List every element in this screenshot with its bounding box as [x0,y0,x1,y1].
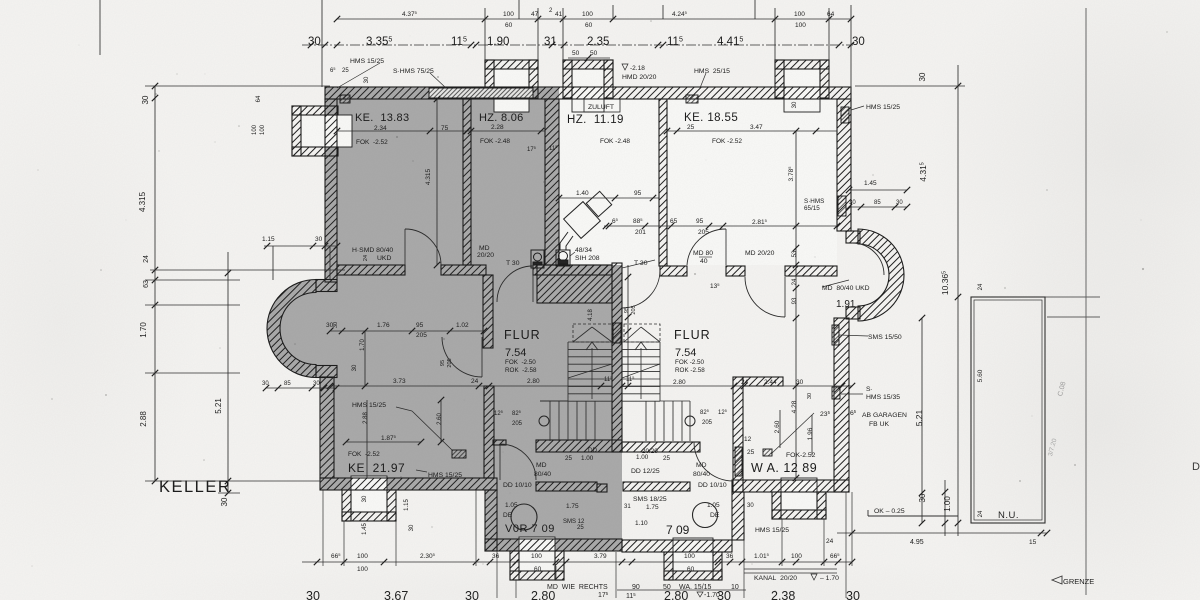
wall VOR step west [485,490,497,551]
wall west lower [320,377,334,478]
wall WA top [743,377,783,386]
light well west wall [292,106,352,156]
wall WA west [733,377,743,492]
window S+HMS 75/25 in top wall [429,88,533,98]
white rooms right unit [559,99,659,265]
wall stub W13 [483,275,493,348]
wall bottom WA [732,480,849,492]
wall east upper [837,99,851,231]
light well top 2 [563,60,613,112]
wall mid seg c [533,265,612,275]
wall KE13/HZ8 [463,99,471,265]
wall apse stub top [316,280,337,292]
wall apse stub bottom [316,366,337,378]
wall west upper [325,99,337,282]
light well top 3 [775,60,829,112]
wall mid seg e [726,266,745,276]
wall stairhall bottom L [536,440,622,452]
light well top 1 [485,60,538,112]
wall mid seg d [660,266,687,276]
light well bottom VOR-R [664,538,722,580]
light well bottom KE21 [342,476,396,521]
wall VOR step east [732,492,744,540]
wall party upper [545,99,559,265]
wall bottom VOR left [485,539,622,551]
floor drains DE [511,504,537,530]
stair base circles [539,416,549,426]
flue boxes SIH [531,250,570,268]
window/door markers in walls [340,95,849,476]
wall mid seg f [785,266,837,276]
dimension lines [100,0,1050,598]
wall mid seg a [337,265,405,275]
N.U. area rectangle [971,297,1045,523]
wall VOR-R duct band [623,482,690,491]
wall bay stub bottom [846,307,860,319]
wall bottom west (KE21) [320,478,497,490]
boiler HZ11 [560,191,612,250]
wall apse west (curved) [267,280,316,378]
stairs right unit [622,324,690,441]
wall top outer [325,87,851,99]
scan specks [389,93,391,95]
wall stairhall stub [493,440,506,445]
light well bottom VOR-L [510,537,564,580]
door arcs [405,229,884,481]
ZULUFT box [584,99,620,112]
boundary GRENZE line [1085,8,1087,595]
wall bay east (curved) [858,229,904,321]
light well bottom WA [772,478,826,519]
wall party mid [612,263,622,452]
wall VOR-L duct band [536,482,597,491]
wall mid seg b [441,265,486,275]
wall chimney block [537,265,612,303]
wall KE21 east [484,386,494,478]
wall east lower [834,318,849,492]
stairs left unit [540,324,612,441]
wall bay stub top [846,231,860,243]
wall bottom VOR right [622,540,732,552]
wall stairhall bottom R [622,442,700,452]
grey shaded unit (left dwelling) [267,87,622,551]
wall HZ11/KE18 [659,99,667,266]
wall VOR-L duct box [597,484,607,492]
